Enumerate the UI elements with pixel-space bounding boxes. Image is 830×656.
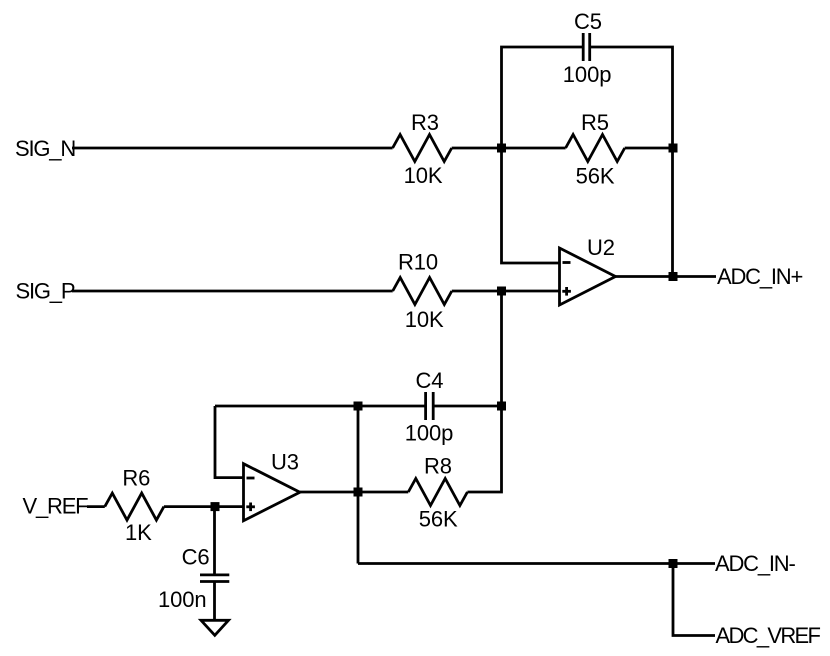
svg-text:R10: R10 <box>398 250 438 275</box>
svg-text:ADC_IN-: ADC_IN- <box>715 551 795 576</box>
svg-text:U2: U2 <box>587 235 615 260</box>
svg-text:1K: 1K <box>125 520 152 545</box>
svg-text:R6: R6 <box>122 466 150 491</box>
svg-text:100p: 100p <box>563 62 612 87</box>
svg-text:10K: 10K <box>404 163 443 188</box>
svg-text:ADC_IN+: ADC_IN+ <box>717 264 802 289</box>
svg-text:C5: C5 <box>574 9 602 34</box>
svg-text:10K: 10K <box>405 307 444 332</box>
svg-text:C6: C6 <box>182 545 210 570</box>
svg-text:100p: 100p <box>405 421 454 446</box>
svg-text:C4: C4 <box>416 368 444 393</box>
svg-text:R8: R8 <box>424 454 452 479</box>
svg-text:R5: R5 <box>581 110 609 135</box>
svg-text:56K: 56K <box>419 507 458 532</box>
svg-text:SIG_N: SIG_N <box>15 136 75 161</box>
svg-text:ADC_VREF: ADC_VREF <box>716 623 821 648</box>
svg-text:U3: U3 <box>271 450 299 475</box>
svg-text:100n: 100n <box>158 587 207 612</box>
svg-text:56K: 56K <box>576 164 615 189</box>
svg-text:SIG_P: SIG_P <box>16 279 75 304</box>
svg-text:V_REF: V_REF <box>23 494 89 519</box>
svg-text:R3: R3 <box>411 110 439 135</box>
